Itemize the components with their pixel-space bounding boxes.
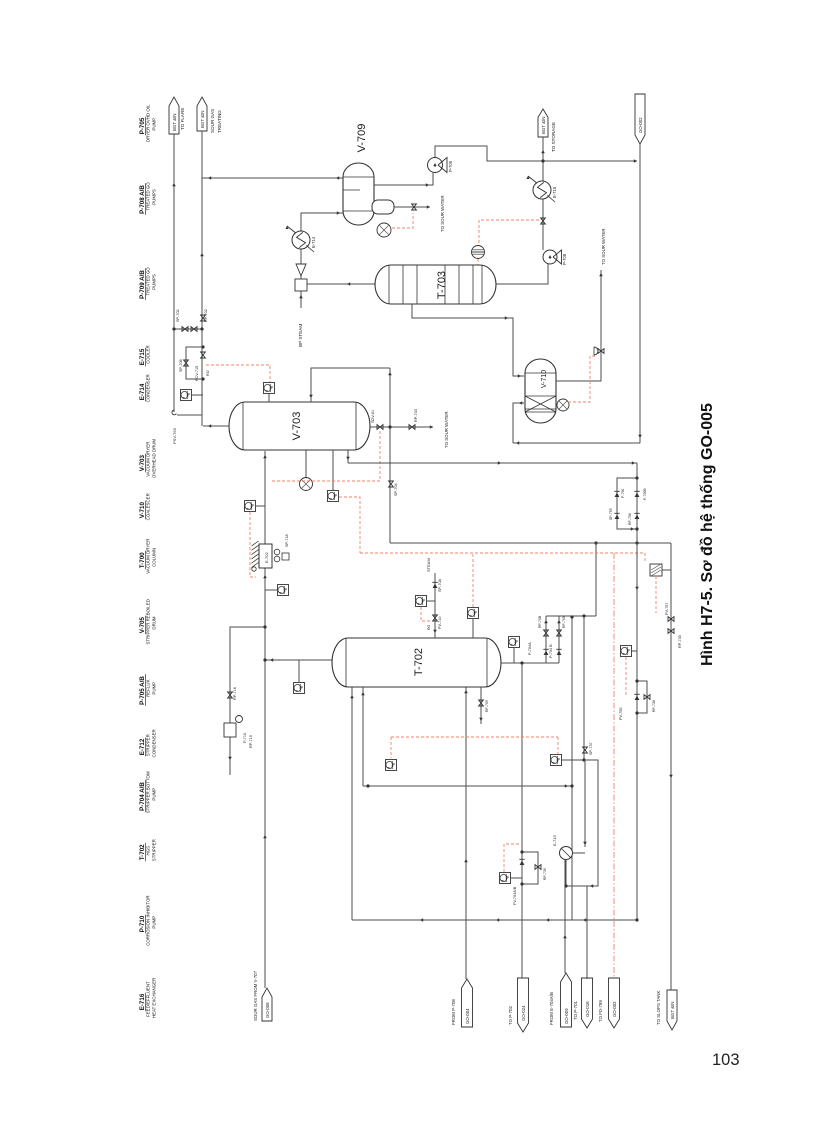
wire V-703 outlet y=427 SDV [370,426,391,428]
bottoms draw x=348 [347,450,349,463]
T-702 overhead line y=663 [501,662,559,664]
vessel V-709 [343,163,374,225]
signal PRC [421,607,430,621]
svg-text:PUMPS: PUMPS [151,189,156,205]
svg-text:CONDENSER: CONDENSER [146,374,151,402]
wire from E-704 x=565 [564,859,566,973]
svg-text:RP-703: RP-703 [414,409,418,422]
svg-text:COOLER: COOLER [146,345,151,364]
feed branch to T-702 y=660 [265,659,332,661]
signal LG to drain valve [568,356,597,402]
wire E-714 to V-709 y=213 [301,213,343,231]
level glass on V-703 [305,450,307,477]
svg-text:TO P-701: TO P-701 [573,1000,578,1020]
T-702 bottoms x=352 [351,687,353,920]
heater coil hatching [252,563,259,568]
drain valve w/ actuator [598,349,601,354]
flag BGT-IN SOUR GAS TREATING [197,97,207,131]
svg-text:TO FLARE: TO FLARE [180,108,185,130]
wire from P-708 x=466 [465,687,467,979]
instrument TI bottoms [386,760,397,771]
svg-text:RP-70B: RP-70B [538,615,542,628]
svg-text:HEAT EXCHANGER: HEAT EXCHANGER [151,978,156,1018]
svg-text:RP-716: RP-716 [233,687,237,700]
instrument TG-764 [181,390,192,401]
flag BGT-IN TO STORAGE [538,109,548,137]
svg-text:P-706: P-706 [448,160,453,172]
riser x=390 to header y=543 [389,368,391,543]
svg-text:BGT &IN: BGT &IN [670,1002,675,1020]
fan circles [274,549,280,555]
svg-text:SP-737: SP-737 [589,742,593,755]
column T-702 [332,638,501,687]
wire stub header y=616 [546,615,596,617]
svg-text:PUMP: PUMP [151,682,156,695]
svg-text:SDV-61: SDV-61 [371,410,375,423]
loop x=598 [566,760,598,886]
svg-text:TO STORAGE: TO STORAGE [551,122,556,152]
svg-text:GO-009: GO-009 [564,1008,569,1024]
svg-text:Hình H7-5. Sơ đồ hệ thống GO-0: Hình H7-5. Sơ đồ hệ thống GO-005 [699,403,716,666]
instrument PI bottoms [551,755,562,766]
svg-text:SP-702: SP-702 [176,309,180,322]
svg-text:RP-719: RP-719 [249,735,253,748]
svg-text:V-709: V-709 [356,124,368,153]
pressure gauge on feed [278,585,289,596]
wire right header x=671 [670,543,672,990]
flag GO-008 SOUR GAS FROM V-707 [262,988,272,1021]
meter run FV-704 [522,852,538,884]
svg-text:OVERHEAD DRUM: OVERHEAD DRUM [151,439,156,478]
svg-text:PV-757: PV-757 [665,603,669,615]
instrument FO [500,873,511,884]
boot of V-709 [372,200,394,214]
main run y=463 [348,462,637,464]
motor box [282,553,289,560]
svg-text:E-714: E-714 [311,236,316,248]
condenser E-714 [292,231,310,249]
wire x=585 to E-713 [584,760,586,847]
svg-text:SP-706: SP-706 [179,359,183,372]
svg-text:P-750B: P-750B [643,488,647,500]
flare header tie y=329 [174,328,202,330]
svg-text:P-704A: P-704A [528,642,532,655]
svg-text:V-710: V-710 [541,370,548,388]
svg-text:P-704 B: P-704 B [549,644,553,658]
instrument on feed branch [294,683,305,694]
wire y=443 to GO-002 [513,442,640,444]
svg-text:RP-738: RP-738 [652,700,656,712]
svg-text:T-703: T-703 [436,271,448,299]
wire P-708 to T-703 [496,264,548,284]
svg-text:BGT &IN: BGT &IN [200,111,205,129]
coalescer V-710 [525,359,556,423]
wire to sour water y=427 [391,426,433,428]
signal red header y=553 [360,552,645,554]
circulation x=572 [571,617,573,920]
flag GO-002 top [635,94,645,144]
svg-text:RP-705: RP-705 [562,616,566,628]
svg-text:SP-759: SP-759 [609,508,613,520]
wire sour gas feed x=265 [264,451,266,988]
flag BGT-IN TO SLOPS TANK [667,990,677,1030]
svg-text:PUMP: PUMP [151,118,156,131]
signal LG up to header [472,553,474,607]
flag GO-024 TO P-702 [518,978,529,1032]
svg-text:DRYER OVHD OIL: DRYER OVHD OIL [146,104,151,142]
svg-text:PUMP: PUMP [151,916,156,929]
wire flare header x=174 [173,134,175,412]
svg-text:GO-002: GO-002 [638,117,643,133]
signal drop to PV instrument [644,553,646,563]
ejector body [295,279,307,291]
svg-text:E-713: E-713 [552,835,557,846]
svg-text:BGT &IN: BGT &IN [172,114,177,132]
svg-text:FV-704A/B: FV-704A/B [513,886,517,905]
ejector funnel [296,264,306,276]
instrument PV-757 [650,564,662,576]
svg-text:CONDENSER: CONDENSER [151,729,156,757]
signal LS to header [339,497,360,553]
svg-text:DRUM: DRUM [151,616,156,630]
svg-text:TO SOUR WATER: TO SOUR WATER [444,411,449,448]
svg-text:FROM E-704A/B: FROM E-704A/B [549,992,554,1025]
relief PSV-763 [172,410,176,415]
svg-text:PUMPS: PUMPS [151,274,156,290]
svg-text:TO P-702: TO P-702 [508,1005,513,1025]
exchanger E-713 [560,847,573,860]
svg-text:RP-730: RP-730 [678,635,682,648]
wire to P-702 x=522 [521,663,523,978]
svg-text:COALESCER: COALESCER [146,493,151,520]
instrument LG T-702 [468,608,479,619]
pump suction stubs P-704A/B [545,616,547,663]
wire header to V-703 inlet y=426 [203,425,229,427]
svg-text:STRIPPER REBOILED: STRIPPER REBOILED [146,599,151,644]
collection header y=920 [352,919,637,921]
level switch LS on V-703 [332,450,334,491]
signal PdI down [625,657,627,697]
flag GO-002 TO FD-789 [609,978,620,1028]
svg-text:VACUUM DRYER: VACUUM DRYER [146,539,151,574]
svg-text:SOUR GAS FROM V-707: SOUR GAS FROM V-707 [253,970,258,1021]
svg-text:SOUR GAS: SOUR GAS [210,109,215,133]
signal LG to drain valve [392,213,413,228]
svg-text:VACUUM DRYER: VACUUM DRYER [146,442,151,477]
instrument PIC on V-703 [264,383,275,394]
svg-text:FROM P-708: FROM P-708 [451,999,456,1025]
cooler E-715 [533,181,551,199]
svg-text:P-750: P-750 [621,489,625,498]
svg-text:STEAM: STEAM [426,558,431,572]
T-702 bottoms x=363 reboiler run [362,687,364,786]
signal LC to T-703 [477,259,479,265]
svg-text:COLUMN: COLUMN [151,548,156,567]
control bypass PV-755 [637,681,647,713]
instrument PdI [621,646,632,657]
pump P-706 [428,158,443,173]
svg-text:SP-704: SP-704 [394,483,398,496]
wire T-703 bottoms to V-710 [412,304,524,376]
svg-text:GO-002: GO-002 [612,1001,617,1017]
svg-text:GO-018: GO-018 [585,1001,590,1017]
instrument TIC feed [245,501,256,512]
steam line to T-702 [434,573,436,638]
svg-text:PV-755: PV-755 [619,708,623,720]
svg-text:RP-739: RP-739 [543,868,547,880]
svg-text:STRIPPER: STRIPPER [146,734,151,756]
svg-text:RP-756: RP-756 [628,513,632,525]
svg-text:T-702: T-702 [413,648,425,676]
wire storage run mid [542,199,544,250]
svg-text:TO SOUR WATER: TO SOUR WATER [601,228,606,265]
wire x=637 main run down [636,463,638,920]
svg-text:E-702: E-702 [264,552,269,563]
svg-text:HGS: HGS [146,846,151,856]
BP steam inlet [300,291,302,308]
svg-text:TO FD-789: TO FD-789 [598,1000,603,1022]
wire E-713 down [565,859,567,886]
flag BGT-IN TO FLARE [169,97,179,134]
valve boot drain [394,206,430,208]
svg-text:RP-709: RP-709 [485,700,489,712]
main header y=543 [390,542,671,544]
signal LV to LC [479,220,539,246]
svg-text:GO-008: GO-008 [265,1002,270,1018]
corrosion inhibitor loop [230,627,265,775]
svg-text:GO-024: GO-024 [521,1005,526,1021]
signal box T-702 bottom instruments [391,736,558,738]
svg-text:CORROSION INHIBITOR: CORROSION INHIBITOR [146,895,151,945]
svg-text:P-708: P-708 [562,253,567,265]
svg-text:BP STEAM: BP STEAM [298,324,303,347]
svg-text:PV-710: PV-710 [438,617,442,629]
wire V-710 drain to sour water [556,270,601,381]
svg-text:GO-004: GO-004 [465,1008,470,1024]
svg-text:103: 103 [712,1051,740,1069]
wire ejector to T-703 y=284 [307,283,375,285]
svg-text:BGT &IN: BGT &IN [541,117,546,135]
letdown station P-750 [617,478,637,529]
wire V-709 to P-706 suction [374,173,433,185]
svg-text:TREATED GO: TREATED GO [146,182,151,211]
svg-text:E-715: E-715 [552,186,557,198]
signal FO [504,844,522,872]
svg-text:PSV-763: PSV-763 [172,427,177,444]
svg-text:SP-70A: SP-70A [438,578,442,592]
feed gas heater E-702 [259,544,272,568]
wire x=584 down [583,616,585,760]
signal PIC-715 [206,365,270,382]
wire P-706 discharge [435,146,637,161]
svg-text:FEED/EFFLUENT: FEED/EFFLUENT [146,981,151,1017]
drum V-703 [229,402,370,450]
svg-text:TO SOUR WATER: TO SOUR WATER [440,195,445,232]
flag GO-018 TO P-701 [582,978,593,1028]
wire to-storage x=543 [542,137,544,250]
svg-text:STRIPPER: STRIPPER [151,839,156,861]
instrument PRC steam [416,596,427,607]
svg-text:TO SLOPS TANK: TO SLOPS TANK [656,991,661,1025]
level controller LC circle [472,246,485,259]
reboiler run y=786 [363,785,572,787]
svg-text:TREATED GO: TREATED GO [146,267,151,296]
wire V-710 bottom loop [513,403,524,443]
pressure control bypass PCV-715 [186,347,203,379]
flag GO-009 FROM E-704A/B [561,973,572,1027]
dosing pump P-710 [224,723,236,737]
svg-text:V-703: V-703 [291,412,303,441]
flag GO-004 FROM P-708 [462,979,473,1027]
svg-text:RO: RO [206,370,210,376]
svg-text:PCV-715: PCV-715 [195,366,199,381]
column T-703 [375,265,496,304]
svg-text:PUMP: PUMP [151,788,156,801]
level gauge LG V-709 [377,223,391,237]
vapour line V-703 top [311,368,390,402]
instrument TI on T-702 outlet [509,637,520,648]
signal red dash-dot x=614 [613,553,615,978]
svg-text:SP-718: SP-718 [285,534,289,547]
svg-text:TREATING: TREATING [217,110,222,133]
signal PV-757 down [655,576,657,613]
wire GO-002 x=640 [639,144,641,443]
wire V-709 to treating header y=178 [202,177,343,179]
signal TIC to heater [250,512,256,577]
wire x=596 up to y=543 [595,543,597,616]
svg-text:STRIPPER BOTTOM: STRIPPER BOTTOM [146,771,151,813]
svg-text:REFLUX: REFLUX [146,680,151,697]
pump P-708 [543,250,557,264]
svg-text:RO: RO [427,624,431,630]
drain x=481 w/ valve RP-709 [480,687,482,724]
signal SDV [270,431,380,481]
valves on slops header [668,617,671,622]
svg-text:P-710: P-710 [243,733,247,743]
wire to P-701 x=587 [586,886,588,979]
wire sour gas treating header x=202 [201,131,203,426]
valve LV on storage run [541,218,546,221]
level gauge V-710 [557,399,569,411]
